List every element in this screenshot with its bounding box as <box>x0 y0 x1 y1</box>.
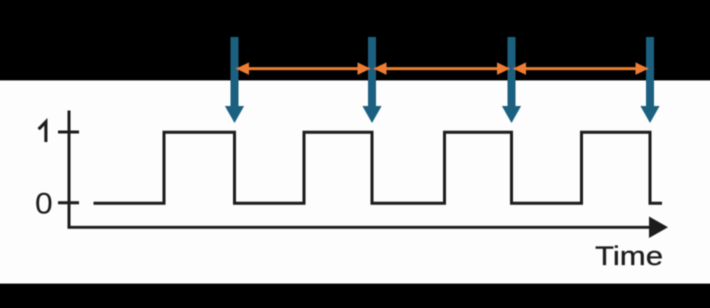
svg-text:Time: Time <box>595 241 663 271</box>
svg-text:0: 0 <box>35 186 53 220</box>
